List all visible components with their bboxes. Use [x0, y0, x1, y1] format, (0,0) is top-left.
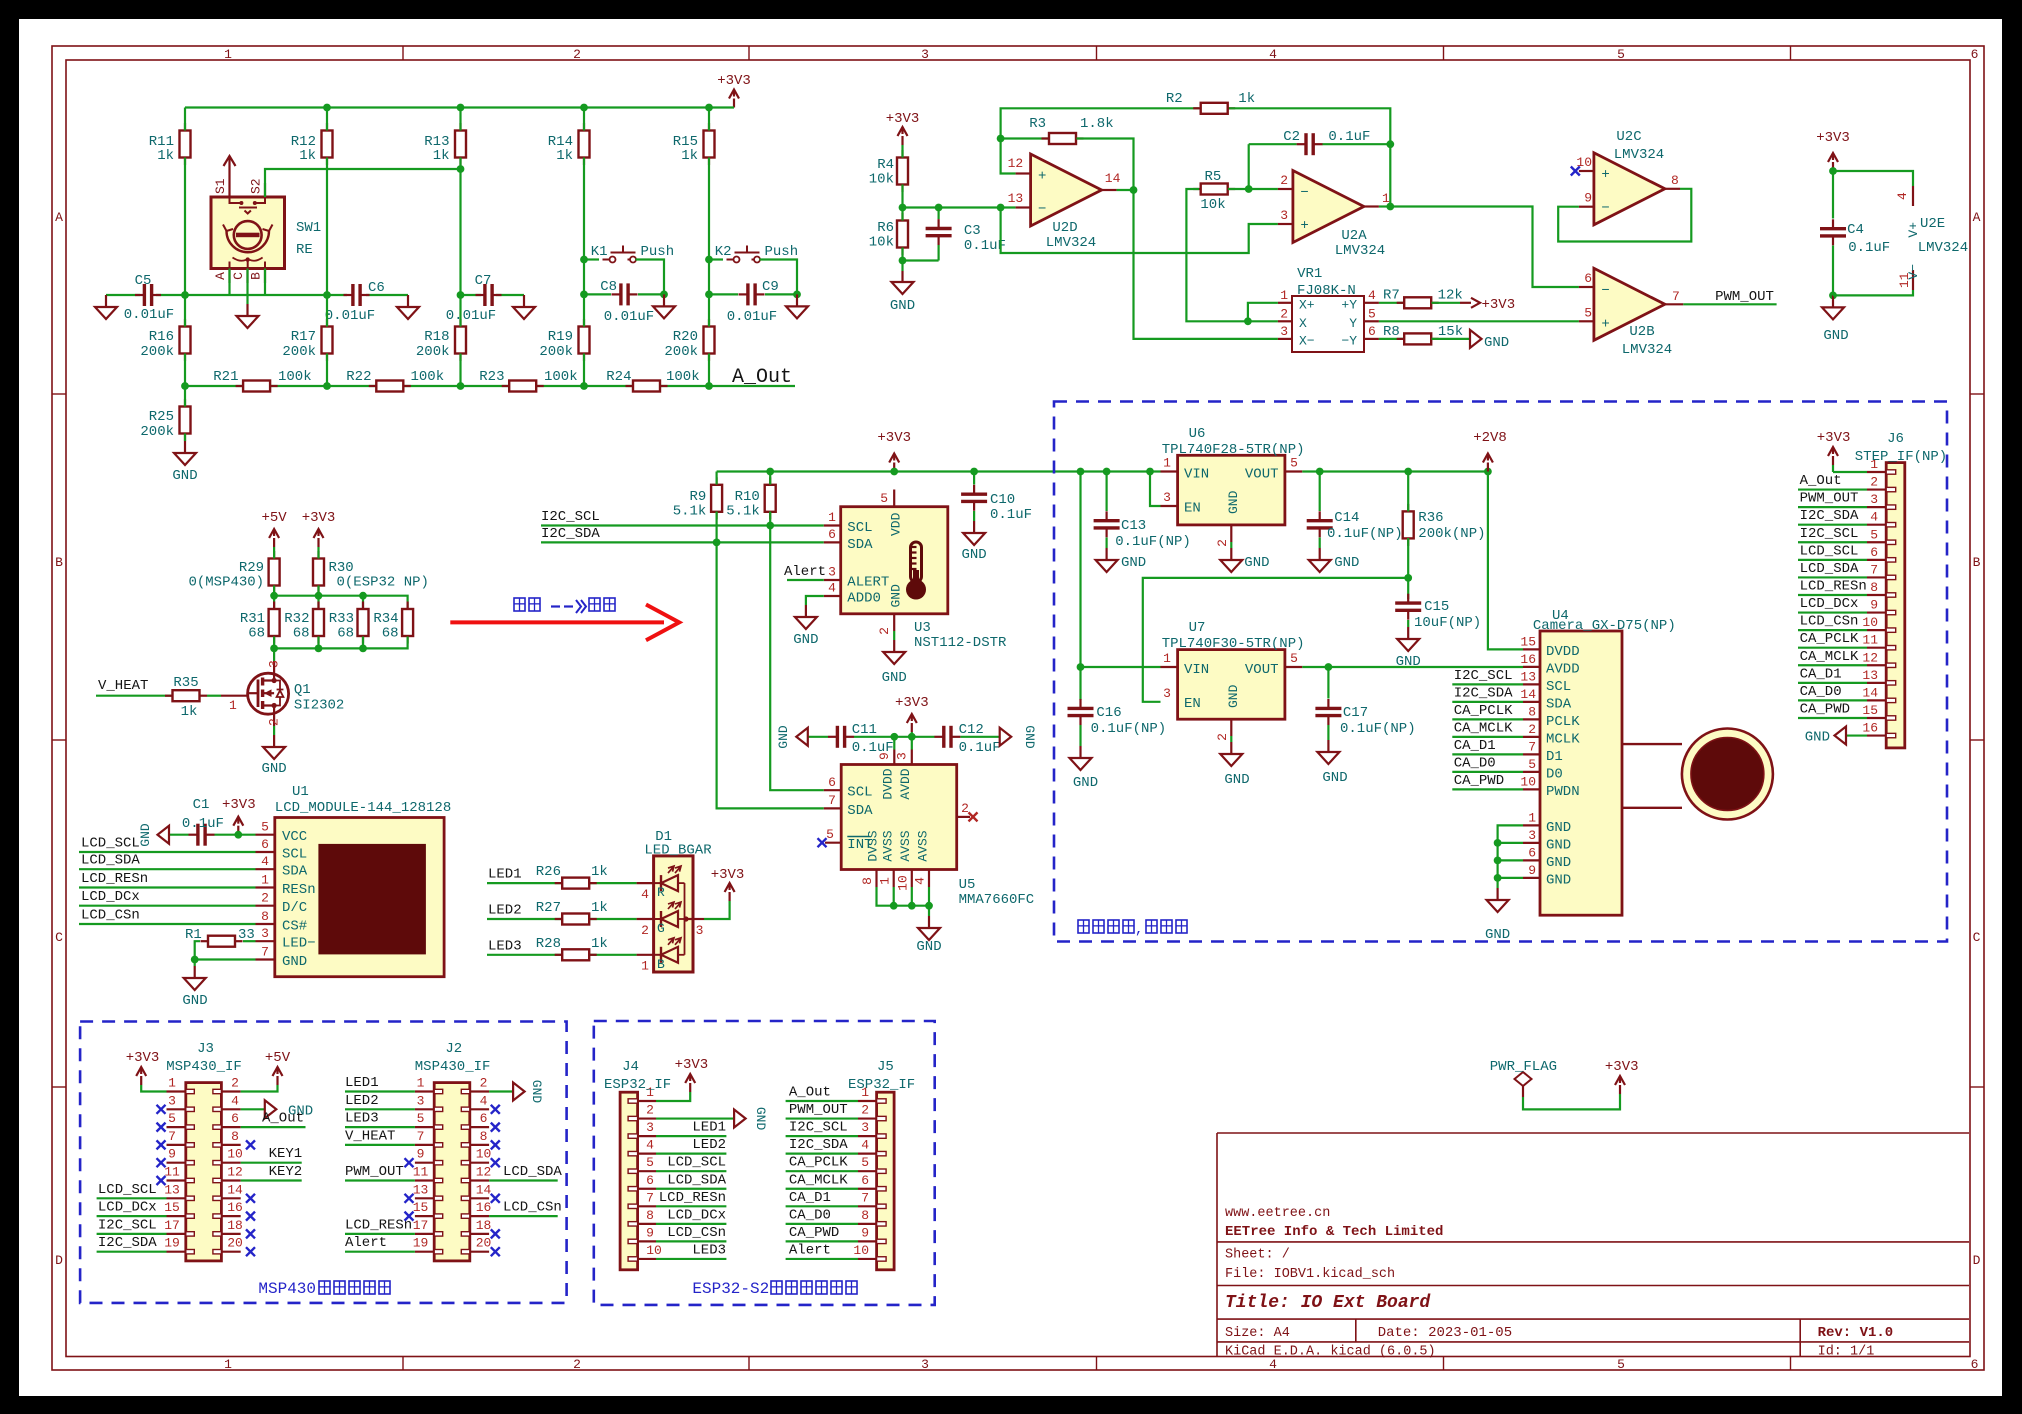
- ground (C6): [397, 295, 419, 319]
- svg-text:ESP32_IF: ESP32_IF: [848, 1077, 915, 1093]
- wire CA_D1 (U4): [1452, 753, 1523, 755]
- svg-text:1: 1: [828, 510, 836, 525]
- svg-text:J4: J4: [622, 1059, 639, 1075]
- dashed box ESP32 interface: [594, 1021, 935, 1305]
- label LCD_RESn (J6): [1800, 578, 1867, 594]
- svg-text:KEY1: KEY1: [269, 1146, 303, 1162]
- ground (C5): [95, 295, 117, 319]
- svg-text:1k: 1k: [681, 148, 698, 164]
- ground (C16): [1070, 746, 1099, 791]
- svg-text:Rev: V1.0: Rev: V1.0: [1818, 1325, 1894, 1341]
- no-connect J2 pin 9: [405, 1158, 414, 1167]
- svg-text:14: 14: [1520, 687, 1536, 702]
- svg-text:3: 3: [921, 1357, 929, 1372]
- resistor R36 200k(NP): [1403, 504, 1486, 546]
- svg-text:+3V3: +3V3: [711, 867, 745, 883]
- svg-text:2: 2: [861, 1103, 869, 1118]
- capacitor C4 0.1uF: [1820, 167, 1890, 299]
- svg-text:8: 8: [1528, 704, 1536, 719]
- wire R15 column: [705, 108, 713, 299]
- wire U5 ground pins: [877, 887, 933, 916]
- svg-text:C10: C10: [990, 492, 1015, 508]
- svg-text:LED2: LED2: [345, 1093, 379, 1109]
- svg-text:7: 7: [646, 1190, 654, 1205]
- svg-text:Size: A4: Size: A4: [1225, 1326, 1290, 1341]
- svg-text:C15: C15: [1424, 599, 1449, 615]
- label CA_D0 (J6): [1800, 684, 1842, 700]
- svg-text:LCD_RESn: LCD_RESn: [1800, 578, 1867, 594]
- resistor R17 200k: [282, 319, 332, 361]
- wire R14 column: [580, 108, 588, 299]
- wire LED3 (J4): [656, 1242, 726, 1259]
- label LCD_DCx: [81, 889, 140, 905]
- svg-text:12: 12: [1008, 156, 1024, 171]
- svg-text:MSP430_IF: MSP430_IF: [415, 1059, 491, 1075]
- wire LCD_DCx (J3): [97, 1200, 167, 1217]
- svg-text:G: G: [657, 921, 665, 936]
- wire C2 right leg: [1323, 143, 1391, 145]
- op-amp U2E power pins: [1833, 171, 1968, 295]
- svg-text:LED3: LED3: [692, 1242, 726, 1258]
- svg-text:LED_BGAR: LED_BGAR: [644, 843, 712, 859]
- svg-text:R25: R25: [149, 409, 174, 425]
- svg-text:GND: GND: [1546, 872, 1571, 888]
- wire divider node: [899, 145, 1016, 221]
- wire U6 EN: [1150, 472, 1161, 507]
- label CA_D1 (J6): [1800, 666, 1842, 682]
- svg-text:7: 7: [1528, 739, 1536, 754]
- svg-text:4: 4: [1870, 510, 1878, 525]
- svg-text:3: 3: [1870, 492, 1878, 507]
- svg-text:LED1: LED1: [692, 1120, 726, 1136]
- label LCD_CSn: [81, 908, 140, 924]
- svg-text:LCD_CSn: LCD_CSn: [667, 1225, 726, 1241]
- power +5V (R29): [261, 510, 287, 547]
- svg-text:Title: IO Ext Board: Title: IO Ext Board: [1225, 1293, 1431, 1313]
- svg-text:LCD_CSn: LCD_CSn: [1800, 614, 1859, 630]
- svg-text:19: 19: [413, 1236, 429, 1251]
- ground (Q1): [261, 735, 286, 777]
- svg-text:D: D: [55, 1253, 63, 1268]
- wire I2C_SDA (J6): [1798, 524, 1867, 526]
- svg-text:6: 6: [1528, 845, 1536, 860]
- wire PWM_OUT (J2): [345, 1164, 415, 1181]
- label LCD_RESn: [81, 871, 148, 887]
- wire U7 VOUT to camera AVDD: [1302, 663, 1523, 671]
- svg-text:200k: 200k: [664, 344, 698, 360]
- svg-text:3: 3: [1163, 686, 1171, 701]
- svg-text:PWM_OUT: PWM_OUT: [1800, 491, 1859, 507]
- svg-text:CA_D0: CA_D0: [789, 1207, 831, 1223]
- wire I2C_SDA: [541, 541, 824, 543]
- svg-text:RESn: RESn: [282, 882, 316, 898]
- svg-text:3: 3: [696, 923, 704, 938]
- capacitor C14 0.1uF(NP): [1307, 472, 1403, 549]
- dashed box future-use: [1054, 402, 1947, 942]
- resistor R22 100k: [346, 369, 444, 392]
- power +3V3 (D1): [711, 867, 745, 901]
- wire CA_MCLK (U4): [1452, 736, 1523, 738]
- svg-text:5: 5: [1617, 47, 1625, 62]
- svg-text:J5: J5: [877, 1059, 894, 1075]
- svg-text:GND: GND: [1546, 855, 1571, 871]
- svg-text:TPL740F30-5TR(NP): TPL740F30-5TR(NP): [1162, 636, 1305, 652]
- svg-text:NST112-DSTR: NST112-DSTR: [914, 635, 1007, 651]
- svg-text:+: +: [1300, 218, 1308, 234]
- wire A_Out bus: [181, 382, 795, 390]
- resistor R20 200k: [664, 319, 714, 361]
- svg-text:5: 5: [1584, 306, 1592, 321]
- wire I2C_SCL (J3): [97, 1217, 167, 1234]
- svg-text:5: 5: [826, 827, 834, 842]
- resistor R15 1k: [673, 123, 715, 165]
- resistor R18 200k: [416, 319, 466, 361]
- svg-text:C1: C1: [193, 797, 210, 813]
- svg-text:5: 5: [1368, 307, 1376, 322]
- wire U4 ground pins: [1494, 825, 1523, 888]
- svg-text:MSP430_IF: MSP430_IF: [166, 1059, 242, 1075]
- svg-text:VIN: VIN: [1184, 467, 1209, 483]
- wire R11 column: [184, 108, 186, 296]
- capacitor C12 0.1uF: [934, 722, 1000, 756]
- wire CA_D0 (J5): [786, 1207, 858, 1224]
- wire LCD_SDA (J6): [1798, 576, 1867, 578]
- svg-text:R26: R26: [536, 864, 561, 880]
- wire LCD_DCx (J6): [1798, 611, 1867, 613]
- svg-text:2: 2: [480, 1076, 488, 1091]
- svg-text:200k: 200k: [282, 344, 316, 360]
- svg-text:9: 9: [1870, 598, 1878, 613]
- svg-text:C9: C9: [762, 279, 779, 295]
- svg-text:3: 3: [261, 926, 269, 941]
- ground (J2 pin2): [489, 1080, 544, 1104]
- svg-text:KEY2: KEY2: [269, 1164, 303, 1180]
- svg-text:J6: J6: [1887, 431, 1904, 447]
- ground (C10): [961, 521, 986, 563]
- svg-text:10: 10: [895, 875, 910, 891]
- svg-text:2: 2: [1280, 307, 1288, 322]
- svg-text:R27: R27: [536, 900, 561, 916]
- svg-text:8: 8: [1671, 173, 1679, 188]
- wire R16 column: [184, 295, 186, 386]
- svg-text:4: 4: [480, 1093, 488, 1108]
- label LED2: [488, 903, 522, 919]
- svg-text:LCD_SDA: LCD_SDA: [81, 853, 140, 869]
- svg-text:V_HEAT: V_HEAT: [98, 678, 148, 694]
- svg-text:5: 5: [646, 1155, 654, 1170]
- regulator U7 TPL740F30-5TR(NP): [1161, 620, 1305, 741]
- wire CA_MCLK (J6): [1798, 664, 1867, 666]
- wire VR1 X+ to X: [1248, 303, 1278, 322]
- wire C9 row: [709, 293, 797, 295]
- svg-text:12: 12: [1862, 650, 1878, 665]
- svg-text:STEP_IF(NP): STEP_IF(NP): [1855, 449, 1947, 465]
- svg-text:2: 2: [1528, 722, 1536, 737]
- svg-text:18: 18: [227, 1218, 243, 1233]
- svg-text:X−: X−: [1299, 334, 1315, 349]
- svg-text:LMV324: LMV324: [1046, 235, 1096, 251]
- capacitor C15 10uF(NP): [1395, 594, 1481, 631]
- svg-text:GND: GND: [890, 298, 915, 314]
- svg-text:SI2302: SI2302: [294, 698, 344, 714]
- svg-text:LED3: LED3: [488, 938, 522, 954]
- op-amp U2D LMV324: [1008, 154, 1121, 251]
- ground (C8): [653, 294, 675, 318]
- resistor R13 1k: [424, 123, 466, 165]
- svg-text:U3: U3: [914, 620, 931, 636]
- label LCD_SDA (J6): [1800, 561, 1859, 577]
- svg-text:CA_D0: CA_D0: [1800, 684, 1842, 700]
- svg-text:R24: R24: [606, 369, 631, 385]
- svg-text:LCD_SDA: LCD_SDA: [667, 1172, 726, 1188]
- svg-text:S1: S1: [213, 178, 228, 194]
- no-connect U5 pin2: [969, 812, 978, 821]
- annotation heating text (Chinese): [514, 598, 615, 613]
- svg-text:C17: C17: [1343, 705, 1368, 721]
- svg-text:C2: C2: [1283, 129, 1300, 145]
- wire +3V3 top bus: [185, 104, 734, 112]
- svg-text:1k: 1k: [157, 148, 174, 164]
- svg-text:D0: D0: [1546, 766, 1563, 782]
- svg-text:J2: J2: [445, 1041, 462, 1057]
- svg-text:VCC: VCC: [282, 829, 307, 845]
- svg-text:CA_PCLK: CA_PCLK: [1454, 703, 1513, 719]
- svg-text:6: 6: [480, 1111, 488, 1126]
- svg-text:15: 15: [1862, 703, 1878, 718]
- svg-text:0.1uF(NP): 0.1uF(NP): [1340, 721, 1416, 737]
- svg-text:1: 1: [229, 698, 237, 713]
- svg-text:3: 3: [1280, 324, 1288, 339]
- svg-text:7: 7: [1870, 562, 1878, 577]
- svg-text:GND: GND: [961, 547, 986, 563]
- svg-text:14: 14: [227, 1182, 243, 1197]
- capacitor C2 0.1uF: [1283, 129, 1370, 155]
- label I2C_SCL (J6): [1800, 526, 1859, 542]
- label V_HEAT: [98, 678, 148, 694]
- svg-text:1k: 1k: [591, 936, 608, 952]
- annotation future-use text (Chinese): [1078, 920, 1187, 938]
- no-connect J2 pin 10: [491, 1158, 500, 1167]
- wire I2C_SDA (U4): [1452, 701, 1523, 703]
- wire U2A output to U2B: [1379, 203, 1579, 287]
- svg-text:0.01uF: 0.01uF: [446, 308, 496, 324]
- svg-text:9: 9: [861, 1225, 869, 1240]
- svg-text:+3V3: +3V3: [302, 510, 336, 526]
- svg-text:A: A: [213, 272, 228, 280]
- resistor R28 1k: [536, 936, 608, 961]
- svg-text:R23: R23: [479, 369, 504, 385]
- svg-text:AVDD: AVDD: [898, 768, 913, 799]
- power +3V3 (C4): [1816, 130, 1850, 171]
- svg-text:I2C_SCL: I2C_SCL: [1800, 526, 1859, 542]
- resistor R6 10k: [869, 213, 908, 255]
- power +3V3 (U5): [895, 695, 929, 732]
- svg-text:−: −: [1601, 201, 1609, 217]
- svg-text:V−: V−: [1906, 264, 1921, 280]
- wire U7 GND: [1230, 736, 1232, 742]
- ground (R8): [1470, 330, 1509, 351]
- no-connect J2 pin 18: [491, 1229, 500, 1238]
- svg-text:Y: Y: [1349, 316, 1357, 331]
- svg-text:9: 9: [417, 1147, 425, 1162]
- svg-text:LCD_RESn: LCD_RESn: [81, 871, 148, 887]
- wire V_HEAT (J2): [345, 1128, 415, 1145]
- no-connect J2 pin 20: [491, 1247, 500, 1256]
- svg-text:0.01uF: 0.01uF: [604, 309, 654, 325]
- svg-text:R20: R20: [673, 329, 698, 345]
- wire LCD_SCL: [79, 851, 256, 853]
- svg-text:1k: 1k: [591, 900, 608, 916]
- svg-text:4: 4: [641, 887, 649, 902]
- wire U3 GND pin: [893, 631, 895, 640]
- svg-text:5: 5: [168, 1111, 176, 1126]
- wire LCD_RESn: [79, 886, 256, 888]
- wire I2C_SDA (J5): [786, 1137, 858, 1154]
- wire LCD_DCx: [79, 905, 256, 907]
- capacitor C16 0.1uF(NP): [1068, 699, 1167, 746]
- svg-text:68: 68: [337, 626, 354, 642]
- wire LCD_RESn (J6): [1798, 594, 1867, 596]
- wire U2D inverting feedback: [1001, 208, 1278, 254]
- svg-text:I2C_SCL: I2C_SCL: [789, 1120, 848, 1136]
- power +2V8: [1473, 430, 1507, 472]
- wire A_Out (J5): [786, 1085, 858, 1102]
- wire LED2 (J2): [345, 1093, 415, 1110]
- wire LCD_DCx (J4): [656, 1207, 726, 1224]
- svg-text:2: 2: [267, 718, 282, 726]
- annotation MSP430 interface text (Chinese): [258, 1280, 390, 1298]
- svg-text:−Y: −Y: [1341, 334, 1357, 349]
- power +3V3 (R7): [1460, 297, 1515, 313]
- ground (U4): [1485, 888, 1510, 943]
- svg-text:GND: GND: [1546, 820, 1571, 836]
- svg-text:+3V3: +3V3: [222, 797, 256, 813]
- svg-text:10: 10: [476, 1147, 492, 1162]
- wire R20 column: [708, 294, 710, 386]
- svg-text:2: 2: [1280, 173, 1288, 188]
- svg-text:1k: 1k: [556, 148, 573, 164]
- svg-text:2: 2: [1215, 733, 1230, 741]
- power +5V (J3): [241, 1050, 291, 1092]
- svg-text:MMA7660FC: MMA7660FC: [959, 892, 1035, 908]
- label LCD_SCL (J6): [1800, 543, 1859, 559]
- svg-text:0.01uF: 0.01uF: [124, 307, 174, 323]
- svg-text:1: 1: [1280, 288, 1288, 303]
- wire LED3 (J2): [345, 1111, 415, 1128]
- ground (J4 pin2): [656, 1107, 768, 1131]
- svg-text:CS#: CS#: [282, 919, 307, 935]
- svg-text:I2C_SDA: I2C_SDA: [789, 1137, 848, 1153]
- svg-text:12: 12: [227, 1165, 243, 1180]
- camera U4 Camera_GX-D75(NP): [1520, 608, 1773, 915]
- svg-text:3: 3: [1280, 208, 1288, 223]
- resistor R7 12k: [1379, 288, 1463, 309]
- svg-text:ALERT: ALERT: [847, 575, 889, 591]
- no-connect U5 INT: [818, 838, 827, 847]
- svg-text:C5: C5: [135, 273, 152, 289]
- svg-text:LMV324: LMV324: [1335, 243, 1385, 259]
- resistor R31 68: [240, 602, 280, 644]
- svg-text:15k: 15k: [1438, 324, 1463, 340]
- svg-text:3: 3: [828, 565, 836, 580]
- svg-text:LED1: LED1: [488, 867, 522, 883]
- resistor R2 1k: [1166, 91, 1255, 114]
- pin SW1-C to ground wire: [246, 269, 248, 305]
- svg-text:15: 15: [164, 1200, 180, 1215]
- resistor R4 10k: [869, 150, 908, 192]
- label CA_D1 (U4): [1454, 738, 1496, 754]
- svg-text:6: 6: [231, 1111, 239, 1126]
- ground (C1): [138, 823, 189, 847]
- svg-text:68: 68: [382, 626, 399, 642]
- ground (U5): [916, 916, 941, 955]
- svg-text:100k: 100k: [666, 369, 700, 385]
- label CA_PWD (U4): [1454, 773, 1504, 789]
- svg-text:I2C_SCL: I2C_SCL: [1454, 668, 1513, 684]
- wire LED1 (J4): [656, 1120, 726, 1137]
- resistor R14 1k: [548, 123, 590, 165]
- svg-text:1: 1: [261, 873, 269, 888]
- label CA_MCLK (J6): [1800, 649, 1859, 665]
- wire LCD_SCL (J6): [1798, 559, 1867, 561]
- svg-text:R18: R18: [424, 329, 449, 345]
- resistor R9 5.1k: [673, 477, 722, 519]
- wire R2 to C2 node: [1229, 108, 1394, 206]
- power flag PWR_FLAG: [1490, 1059, 1557, 1097]
- svg-text:LCD_SCL: LCD_SCL: [667, 1155, 726, 1171]
- svg-text:+5V: +5V: [265, 1050, 291, 1066]
- svg-text:13: 13: [413, 1182, 429, 1197]
- no-connect J3 pin 18: [246, 1229, 255, 1238]
- label A_Out (J6): [1800, 473, 1842, 489]
- svg-text:+3V3: +3V3: [126, 1050, 160, 1066]
- power +3V3 (J3): [126, 1050, 167, 1092]
- svg-text:X+: X+: [1299, 298, 1315, 313]
- svg-text:R22: R22: [346, 369, 371, 385]
- svg-text:LMV324: LMV324: [1614, 147, 1664, 163]
- svg-text:A_Out: A_Out: [262, 1111, 304, 1127]
- svg-text:1: 1: [224, 47, 232, 62]
- label A_Out: [732, 366, 792, 389]
- capacitor C5 0.01uF: [124, 273, 174, 323]
- capacitor C7 0.01uF: [446, 273, 502, 324]
- svg-text:3: 3: [895, 752, 910, 760]
- power +3V3 (J4): [656, 1057, 708, 1101]
- svg-text:K1: K1: [591, 244, 608, 260]
- svg-text:K2: K2: [715, 244, 732, 260]
- resistor R19 200k: [539, 319, 589, 361]
- svg-text:−: −: [1300, 185, 1308, 201]
- svg-text:+3V3: +3V3: [877, 430, 911, 446]
- svg-text:U2E: U2E: [1920, 216, 1945, 232]
- wire I2C_SCL (J5): [786, 1120, 858, 1137]
- svg-text:2: 2: [573, 1357, 581, 1372]
- svg-text:MSP430: MSP430: [258, 1280, 316, 1298]
- label LED1: [488, 867, 522, 883]
- svg-text:Date: 2023-01-05: Date: 2023-01-05: [1378, 1325, 1512, 1341]
- svg-text:C14: C14: [1334, 510, 1359, 526]
- svg-text:10: 10: [646, 1243, 662, 1258]
- svg-text:13: 13: [164, 1182, 180, 1197]
- svg-text:LCD_SCL: LCD_SCL: [1800, 543, 1859, 559]
- svg-text:C8: C8: [600, 279, 617, 295]
- wire Alert (J2): [345, 1235, 415, 1252]
- svg-text:3: 3: [1163, 490, 1171, 505]
- svg-text:100k: 100k: [544, 369, 578, 385]
- svg-text:I2C_SDA: I2C_SDA: [1454, 685, 1513, 701]
- svg-text:9: 9: [168, 1147, 176, 1162]
- svg-text:11: 11: [1862, 633, 1878, 648]
